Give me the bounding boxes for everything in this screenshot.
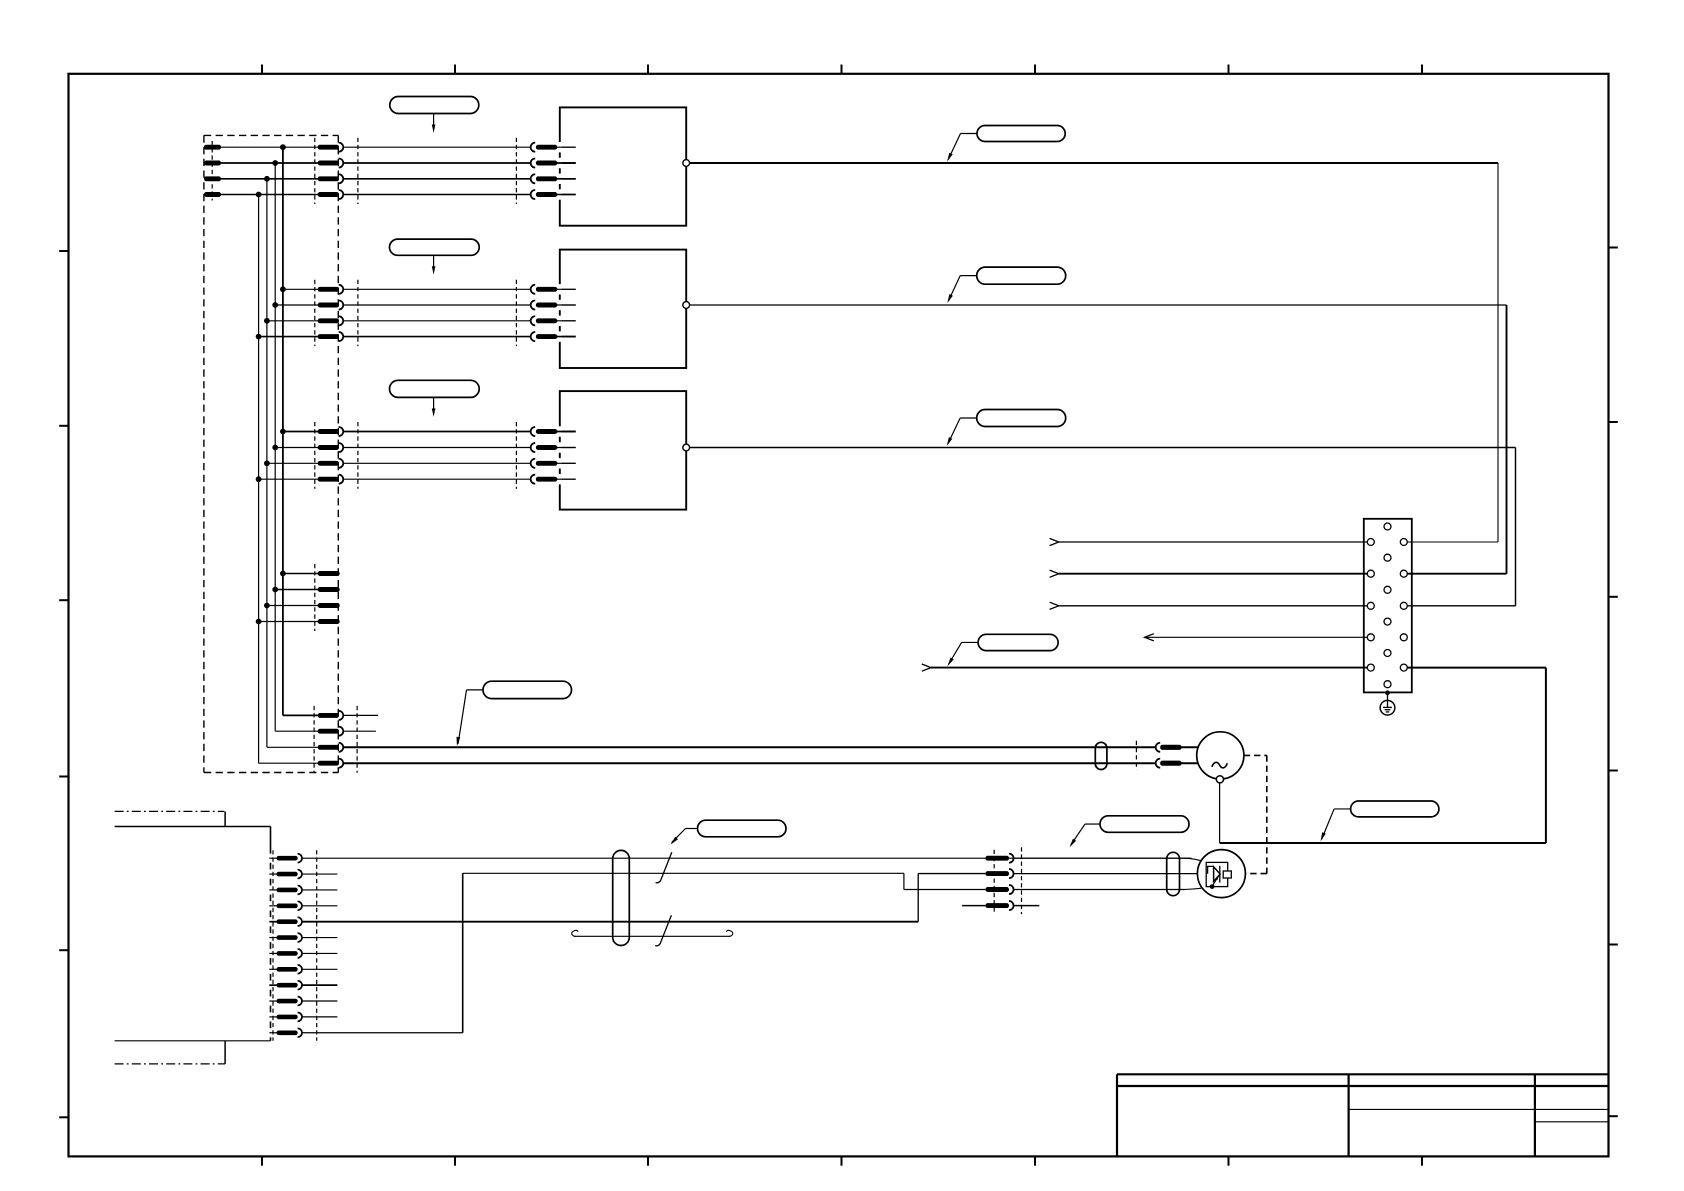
connector X2b pins [516,280,575,346]
label callout P4 [947,267,1065,303]
wire bus N2 with junction dots [272,160,278,731]
connector X2a pins [315,280,358,346]
title block [1117,1074,1609,1156]
field wire E with direction arrow [922,664,1368,671]
label callout P1 [390,97,479,134]
wires from bus to connector X1a [221,147,319,194]
wires from bus to connector X3a [259,432,319,480]
label callout P5 [390,380,480,417]
sensor wire S3 (thick) [302,874,986,922]
motor return wire to terminal block [1220,668,1546,843]
label callout P10 [1321,801,1439,841]
field wire B with direction arrow [1050,570,1368,577]
motor supply wire N [343,762,1156,764]
cable wires to connector X1b [343,147,531,194]
device box K1 [557,107,687,225]
connector X6 pins (motor) [1156,743,1199,768]
supply wire end terminals [205,141,221,201]
wires from bus to connector X2a [259,289,319,336]
output node circle of K1 [683,160,690,167]
sensor cable wires to sensor [1014,858,1211,889]
label callout P9 [1070,816,1190,847]
device box K2 [557,250,687,368]
wire bus N4 with junction dots [256,192,262,764]
label callout P6 [947,410,1066,447]
motor terminal circle [1216,776,1223,783]
wire bus N1 with junction dots [280,144,286,715]
connector X1a pins [315,138,358,204]
connector X3a pins [315,422,358,489]
cable shield symbol [572,930,733,936]
temperature sensor B1 circle [1197,850,1245,898]
device box K3 [557,391,687,510]
spare stubs of X7 [302,874,337,1017]
label callout P8 [671,820,787,844]
cable bundle marker (stadium) on sensor cable [613,850,630,945]
enclosure boundary (dashed) [204,135,338,772]
motor supply wire L [343,746,1156,748]
terminal block X10 terminal circles [1367,523,1407,688]
connector X3b pins [516,422,575,489]
block right-side wires to verticals [1407,542,1546,668]
motor AC tilde symbol [1212,762,1227,767]
spare wire terminals group 4 [259,564,340,631]
connector X5 pins [259,706,358,773]
dashed link motor to sensor [1244,755,1267,873]
connector X8 pins [986,847,1022,914]
terminal block X10 body [1364,519,1412,693]
cable bundle marker (stadium) on motor cable [1095,742,1107,769]
label callout P3 [390,239,480,275]
cable wires to connector X3b [343,432,531,480]
conductor-count slash (lower) [655,915,671,946]
sensor inner symbol [1206,862,1231,889]
label callout P2 [947,126,1065,162]
cable divider dash on motor cable [1135,741,1137,770]
output wire of K3 to terminal block [690,448,1516,606]
motor ground stem wire [1219,783,1221,843]
field wire D with direction arrow [1145,634,1368,641]
motor M1 circle [1197,732,1244,779]
output node circle of K3 [683,444,690,451]
sensor wire S2 (via riser) [302,873,986,1032]
field wire A with direction arrow [1050,538,1368,545]
cable wires to connector X2b [343,289,531,336]
output node circle of K2 [683,302,690,309]
output wire of K2 to terminal block [690,305,1507,574]
wire bus N3 with junction dots [264,176,270,747]
sensor wire S1 [302,857,1191,859]
cable bundle marker (stadium) at sensor [1167,852,1180,895]
label callout P7 [948,634,1059,666]
connector X1b pins [516,138,575,204]
connector X7 pins (12 rows) [269,850,317,1041]
spare stubs of X5 [343,715,378,731]
spare stub row4 of X8 [962,905,1039,907]
conductor-count slash (upper) [656,852,672,883]
field wire C with direction arrow [1050,602,1368,609]
device box K4 outline with break lines [115,811,271,1064]
output wire of K1 to terminal block [690,163,1498,542]
protective earth symbol [1380,690,1395,715]
label callout P0 [457,681,572,746]
